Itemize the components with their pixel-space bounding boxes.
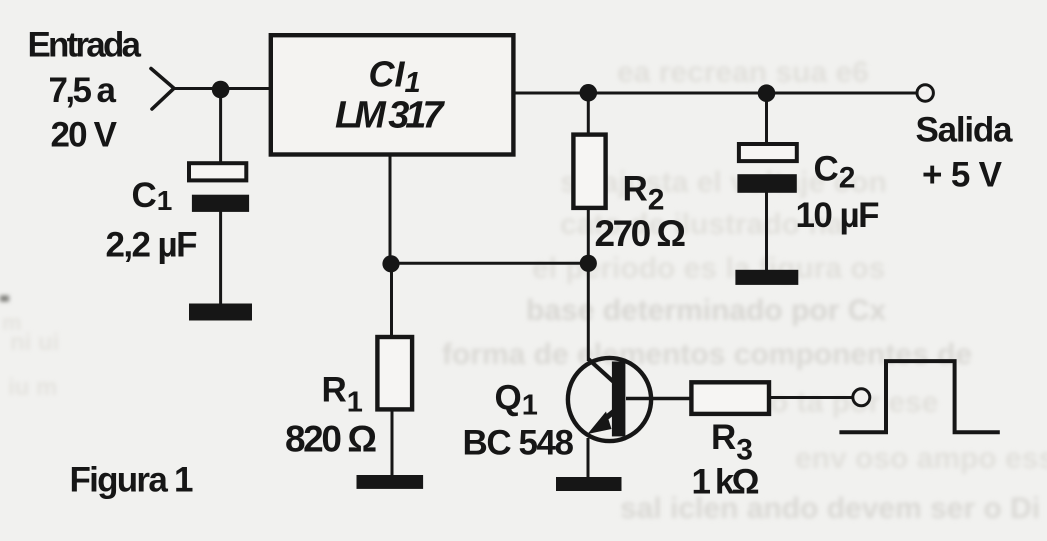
svg-text:Entrada: Entrada	[28, 26, 142, 65]
wire C1 branch down	[219, 89, 222, 165]
wire R2 top lead	[587, 93, 590, 136]
svg-text:270 Ω: 270 Ω	[595, 213, 687, 254]
svg-text:env oso ampo essa: env oso ampo essa	[795, 442, 1047, 475]
svg-text:iu m: iu m	[8, 374, 57, 401]
node output terminal Salida	[917, 85, 933, 101]
resistor R3	[691, 382, 769, 414]
node output junction R2	[580, 84, 598, 102]
ground R1	[357, 475, 424, 489]
ground Q1	[556, 477, 622, 491]
svg-text:LM 317: LM 317	[335, 95, 445, 137]
node output terminal pulse	[853, 389, 870, 406]
ground C2	[735, 270, 798, 285]
wire C2 to ground	[765, 192, 768, 271]
node output junction C2	[758, 84, 776, 102]
svg-text:Figura 1: Figura 1	[70, 460, 194, 499]
svg-text:base determinado por Cx: base determinado por Cx	[526, 294, 886, 327]
pulse waveform	[839, 361, 999, 432]
ground C1	[189, 304, 252, 321]
node input junction	[212, 81, 230, 99]
wire ADJ horizontal	[390, 262, 588, 265]
capacitor C2	[737, 144, 796, 193]
resistor R2	[573, 135, 605, 208]
resistor R1	[377, 337, 412, 409]
svg-text:+ 5 V: + 5 V	[922, 156, 1003, 195]
wire output horizontal	[513, 92, 916, 95]
wire R3 to terminal	[769, 396, 852, 399]
wire Q1 emitter to ground	[587, 438, 590, 478]
wire C1 to ground	[219, 211, 222, 305]
wire R2 bottom lead	[587, 207, 590, 263]
svg-text:ni ui: ni ui	[10, 329, 59, 356]
svg-text:10 µF: 10 µF	[796, 196, 880, 235]
wire input horizontal	[172, 87, 271, 90]
svg-text:Salida: Salida	[916, 111, 1014, 150]
svg-text:ea recrean sua e6: ea recrean sua e6	[617, 56, 869, 89]
input arrow	[151, 69, 174, 110]
wire Q1 collector lead	[587, 263, 590, 361]
svg-text:2,2 µF: 2,2 µF	[106, 226, 198, 265]
regulator CI1 LM317 box	[271, 35, 514, 154]
wire R1 bottom lead	[391, 409, 394, 476]
svg-text:820 Ω: 820 Ω	[285, 419, 377, 460]
node ADJ junction right	[580, 255, 597, 272]
svg-text:sal iclen ando devem ser o Di: sal iclen ando devem ser o Di	[620, 492, 1040, 525]
transistor Q1	[568, 358, 651, 441]
wire R1 top lead	[390, 263, 393, 337]
node ADJ junction left	[382, 255, 399, 272]
wire base to R3	[626, 397, 691, 401]
wire C2 top lead	[765, 93, 768, 145]
svg-text:forma de elementos componentes: forma de elementos componentes de	[442, 338, 972, 371]
svg-text:1 kΩ: 1 kΩ	[692, 463, 760, 502]
capacitor C1	[189, 163, 249, 212]
svg-text:BC 548: BC 548	[463, 424, 575, 463]
svg-text:7,5 a: 7,5 a	[49, 71, 117, 110]
svg-text:20 V: 20 V	[51, 116, 118, 155]
wire ADJ vertical from CI1	[389, 154, 392, 263]
